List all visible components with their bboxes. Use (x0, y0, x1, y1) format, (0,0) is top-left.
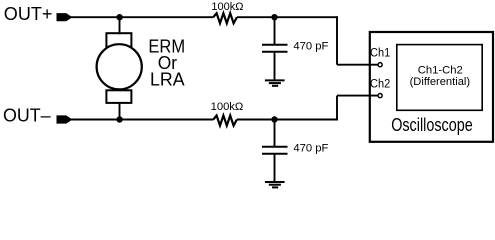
svg-text:Ch1: Ch1 (370, 46, 390, 60)
wire OUT+ rail: resistor to corner (237, 16, 338, 18)
svg-text:Ch2: Ch2 (370, 77, 390, 91)
node OUT+ (label) (4, 3, 53, 24)
node junction: motor tap on OUT- rail (116, 116, 122, 122)
svg-text:OUT+: OUT+ (4, 3, 53, 24)
label R1 value 100kΩ (211, 1, 244, 13)
svg-text:Oscilloscope: Oscilloscope (391, 114, 473, 135)
label C1 value 470 pF (293, 41, 328, 53)
wire OUT- rail: lug to resistor (71, 119, 214, 121)
wire: motor to OUT- junction (119, 103, 121, 120)
pin label Ch1 (370, 46, 390, 60)
wire: into Ch1 terminal (337, 64, 378, 66)
node junction: C2 tap on OUT- rail (271, 116, 277, 122)
label C2 value 470 pF (293, 143, 328, 155)
label Ch1-Ch2 (Differential) (410, 64, 471, 88)
pin Ch1 terminal circle (378, 63, 382, 67)
pin Ch2 terminal circle (378, 94, 382, 98)
terminal lug OUT+ (57, 13, 71, 21)
resistor R1 100k (top) (213, 13, 237, 23)
node OUT- (label) (3, 105, 51, 126)
ground (top) (265, 80, 285, 85)
svg-text:470 pF: 470 pF (293, 143, 328, 155)
svg-text:LRA: LRA (150, 69, 185, 90)
wire: OUT- rail corner up to Ch2 (336, 96, 338, 121)
capacitor C1 470 pF (top) (262, 45, 288, 52)
svg-text:OUT–: OUT– (3, 105, 51, 126)
svg-text:(Differential): (Differential) (410, 76, 471, 88)
wire: OUT+ junction down to motor (119, 17, 121, 34)
svg-text:Ch1-Ch2: Ch1-Ch2 (418, 64, 463, 76)
label motor value: ERM Or LRA (148, 35, 185, 89)
node junction: C1 tap on OUT+ rail (271, 14, 277, 20)
svg-text:100kΩ: 100kΩ (211, 101, 244, 113)
wire OUT+ rail: lug to resistor (71, 16, 214, 18)
resistor R2 100k (bottom) (213, 116, 237, 126)
ground (bottom) (265, 182, 285, 187)
pin label Ch2 (370, 77, 390, 91)
label Oscilloscope (391, 114, 473, 135)
oscilloscope U1 outer box (370, 32, 493, 142)
oscilloscope display box (397, 45, 482, 111)
capacitor C2 470 pF (bottom) (262, 147, 288, 154)
label R2 value 100kΩ (211, 101, 244, 113)
wire: junction down to capacitor C2 (274, 120, 276, 148)
svg-text:100kΩ: 100kΩ (211, 1, 244, 13)
wire: OUT+ rail corner down to Ch1 (336, 16, 338, 64)
wire: capacitor C1 to ground (274, 52, 276, 80)
wire OUT- rail: resistor to corner (237, 119, 338, 121)
wire: into Ch2 terminal (337, 95, 378, 97)
terminal lug OUT- (57, 115, 71, 123)
motor M1 ERM/LRA body (97, 33, 142, 103)
svg-text:470 pF: 470 pF (293, 41, 328, 53)
node junction: motor tap on OUT+ rail (116, 14, 122, 20)
wire: capacitor C2 to ground (274, 154, 276, 182)
wire: junction down to capacitor C1 (274, 17, 276, 45)
